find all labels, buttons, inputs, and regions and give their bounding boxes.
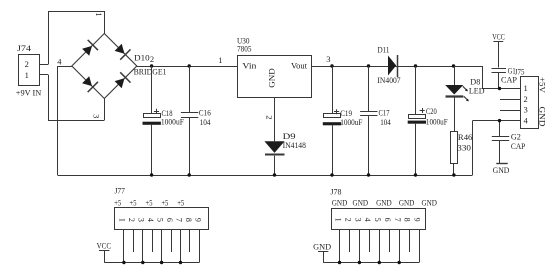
svg-text:LED: LED [469, 85, 485, 95]
J77 VCC bus wire [104, 262, 199, 264]
LED D8 [445, 66, 484, 132]
J78 pin 3 lead wire [359, 229, 361, 262]
J78 GND ground symbol [313, 242, 331, 263]
svg-text:4: 4 [523, 116, 528, 126]
capacitor G1 CAP [492, 65, 518, 88]
wire U30 Vout to +5V corner [312, 66, 521, 89]
J75 pin 2 stub wire [500, 99, 520, 101]
svg-text:104: 104 [380, 117, 391, 127]
junction G1 to pin1 wire [498, 87, 501, 90]
J78 bus junction pin 3 [358, 261, 361, 264]
svg-text:D10: D10 [134, 53, 150, 63]
junction C19 bottom [330, 173, 333, 176]
bridge diode bottom-right [115, 72, 131, 88]
J78 bus junction pin 1 [338, 261, 341, 264]
svg-text:9: 9 [413, 218, 422, 222]
wire U30 GND pin to D9 [274, 97, 276, 141]
wire bridge pin2 to U30 Vin [137, 66, 238, 68]
svg-text:+5: +5 [114, 198, 121, 208]
junction C18 top [150, 64, 153, 67]
svg-text:4: 4 [146, 218, 155, 222]
svg-text:C16: C16 [199, 108, 211, 118]
svg-text:J74: J74 [17, 43, 32, 53]
J78 pin 6 lead wire [389, 229, 391, 252]
svg-text:7: 7 [393, 218, 402, 222]
svg-text:1000uF: 1000uF [340, 117, 362, 127]
svg-text:3: 3 [137, 218, 146, 222]
svg-text:1: 1 [218, 55, 222, 65]
svg-text:330: 330 [457, 142, 471, 152]
svg-text:2: 2 [344, 218, 353, 222]
svg-text:1: 1 [118, 218, 127, 222]
svg-text:GND: GND [353, 198, 369, 208]
svg-text:+5: +5 [177, 198, 184, 208]
svg-text:3: 3 [523, 105, 527, 115]
svg-text:1: 1 [334, 218, 343, 222]
junction C20 bottom [414, 173, 417, 176]
connector J74 [16, 43, 42, 97]
svg-text:D11: D11 [378, 45, 390, 55]
junction G2 to pin4 wire [498, 119, 501, 122]
J77 VCC power symbol [97, 240, 112, 262]
svg-text:Vout: Vout [291, 60, 308, 70]
bridge diode bottom-left [82, 76, 98, 92]
svg-text:1000uF: 1000uF [426, 116, 448, 126]
svg-text:J78: J78 [330, 186, 341, 196]
svg-text:3: 3 [326, 54, 330, 64]
svg-text:R46: R46 [458, 132, 473, 142]
svg-text:+5V: +5V [538, 77, 548, 94]
J78 pin 7 lead wire [399, 229, 401, 262]
J78 pin 1 lead wire [339, 229, 341, 262]
J78 bus junction pin 7 [398, 261, 401, 264]
ground symbol below G2 [493, 164, 510, 175]
svg-text:6: 6 [165, 218, 174, 222]
wire ground rail to J75 pin 4 [473, 121, 521, 176]
svg-text:VCC: VCC [97, 240, 112, 250]
J77 bus junction pin 5 [160, 261, 163, 264]
J78 GND bus wire [323, 262, 419, 264]
svg-text:+5: +5 [130, 198, 137, 208]
svg-text:G2: G2 [511, 131, 521, 141]
svg-text:2: 2 [25, 59, 29, 69]
junction C16 top [188, 64, 191, 67]
J78 pin 2 lead wire [349, 229, 351, 252]
svg-text:J75: J75 [515, 67, 525, 77]
J77 pin 6 lead wire [171, 230, 173, 252]
power symbol VCC [492, 31, 505, 67]
svg-text:3: 3 [353, 218, 362, 222]
svg-text:3: 3 [92, 114, 102, 118]
svg-text:1000uF: 1000uF [161, 117, 184, 127]
junction D9 bottom [273, 173, 276, 176]
svg-text:2: 2 [523, 94, 527, 104]
capacitor G2 CAP [492, 121, 526, 164]
capacitor C16 [181, 66, 211, 175]
svg-text:Vin: Vin [242, 60, 257, 70]
J77 bus junction pin 7 [179, 261, 182, 264]
capacitor C18 [143, 66, 185, 175]
svg-text:2: 2 [265, 115, 275, 119]
svg-text:104: 104 [200, 117, 212, 127]
svg-text:VCC: VCC [492, 31, 505, 41]
svg-text:5: 5 [373, 218, 382, 222]
J78 pin 4 lead wire [369, 229, 371, 252]
J78 bus junction pin 5 [378, 261, 381, 264]
J77 pin 1 lead wire [123, 230, 125, 263]
svg-text:+5: +5 [146, 198, 153, 208]
J78 pin 8 lead wire [409, 229, 411, 252]
J78 pin 9 lead wire [419, 229, 421, 262]
svg-text:GND: GND [421, 198, 437, 208]
junction C20 top [414, 64, 417, 67]
svg-text:1: 1 [25, 70, 29, 80]
svg-text:GND: GND [538, 107, 548, 127]
connector J75 body [521, 77, 539, 129]
svg-text:4: 4 [57, 56, 62, 66]
bridge diode top-right [115, 44, 131, 60]
svg-text:5: 5 [156, 218, 165, 222]
diode D11 IN4007 [377, 45, 400, 86]
bridge diode top-left [82, 40, 98, 56]
wire J74 pin2 to top rail [39, 11, 105, 65]
svg-text:1: 1 [94, 12, 104, 16]
svg-text:7: 7 [175, 218, 184, 222]
ground rail wire [58, 175, 473, 177]
J77 bus junction pin 3 [141, 261, 144, 264]
wire bridge pin4 to ground rail [58, 66, 72, 175]
svg-text:2: 2 [150, 54, 154, 64]
svg-text:IN4148: IN4148 [283, 140, 306, 150]
svg-text:7805: 7805 [237, 44, 252, 54]
junction C17 top [367, 64, 370, 67]
J78 pin 5 lead wire [379, 229, 381, 262]
svg-text:GND: GND [493, 165, 510, 175]
svg-text:GND: GND [267, 68, 277, 88]
junction C16 bottom [188, 173, 191, 176]
J77 pin 5 lead wire [161, 230, 163, 263]
svg-text:J77: J77 [115, 186, 125, 196]
connector J77 body [115, 186, 209, 230]
svg-text:+5: +5 [161, 198, 168, 208]
junction C17 bottom [367, 173, 370, 176]
svg-text:GND: GND [313, 242, 331, 252]
svg-text:6: 6 [383, 218, 392, 222]
wire J74 pin1 to bridge pin 3 [39, 75, 105, 121]
junction D8 top [452, 64, 455, 67]
svg-text:1: 1 [523, 83, 527, 93]
svg-text:CAP: CAP [511, 141, 526, 151]
svg-text:4: 4 [363, 218, 372, 222]
capacitor C20 [408, 66, 448, 175]
svg-text:GND: GND [399, 198, 415, 208]
J77 pin 8 lead wire [189, 230, 191, 252]
regulator U30 7805 body [237, 36, 312, 98]
svg-text:C17: C17 [379, 108, 390, 118]
capacitor C17 [360, 66, 391, 175]
svg-text:8: 8 [403, 218, 412, 222]
svg-text:C20: C20 [426, 106, 437, 116]
J75 pin 3 stub wire [500, 110, 520, 112]
J77 pin 7 lead wire [180, 230, 182, 263]
svg-text:8: 8 [184, 218, 193, 222]
svg-text:GND: GND [376, 198, 392, 208]
svg-text:IN4007: IN4007 [377, 75, 400, 85]
bridge rectifier D10 BRIDGE1 diamond [72, 34, 137, 99]
J77 pin 9 lead wire [199, 230, 201, 263]
capacitor C19 [323, 66, 363, 175]
svg-text:GND: GND [332, 198, 348, 208]
J77 pin 4 lead wire [152, 230, 154, 252]
svg-text:BRIDGE1: BRIDGE1 [134, 67, 167, 77]
J77 pin 3 lead wire [142, 230, 144, 263]
diode D9 IN4148 [264, 131, 306, 175]
junction C19 top [330, 64, 333, 67]
resistor R46 330 [451, 132, 473, 176]
svg-text:+9V IN: +9V IN [16, 87, 42, 97]
J77 pin 2 lead wire [133, 230, 135, 252]
svg-text:9: 9 [194, 218, 203, 222]
svg-text:2: 2 [127, 218, 136, 222]
connector J78 body [330, 186, 425, 229]
J77 bus junction pin 1 [122, 261, 125, 264]
junction C18 bottom [150, 173, 153, 176]
junction R46 bottom [452, 173, 455, 176]
